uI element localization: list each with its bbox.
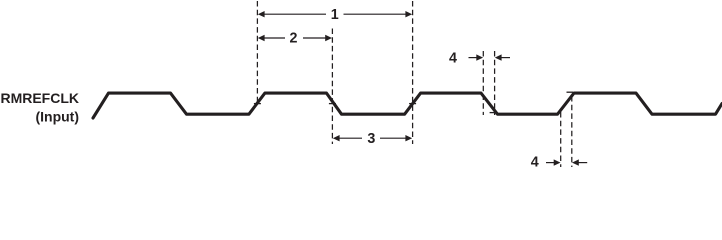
reference line G (end of rising edge 4, rise-time right) <box>571 96 573 167</box>
reference line A (rising edge 2, left of dims 1 and 2) <box>256 1 258 105</box>
svg-text:1: 1 <box>331 7 339 23</box>
reference line E (end of falling edge 3, fall-time right) <box>494 51 496 115</box>
waveform RMREFCLK clock trace <box>93 93 722 118</box>
tick at high level near rising edge 4 end <box>567 91 574 93</box>
svg-text:4: 4 <box>531 154 539 170</box>
reference line C (rising edge 3, right of dims 1 and 3) <box>412 1 414 144</box>
dimension 3 (low pulse width) arrow line <box>333 135 412 141</box>
svg-text:(Input): (Input) <box>35 109 79 125</box>
tick at 50% crossing of rising edge 2 <box>254 103 261 105</box>
dimension 2 (high pulse width) arrow line <box>258 35 332 41</box>
reference line D (start of falling edge 3, fall-time left) <box>482 51 484 115</box>
tick at low level near falling edge 3 end <box>490 112 497 114</box>
tick at 50% crossing of rising edge 3 <box>409 103 416 105</box>
dimension 4 bottom (rise time) arrows pointing inward <box>546 159 587 165</box>
svg-text:RMREFCLK: RMREFCLK <box>0 90 79 106</box>
dimension 4 top (fall time) arrows pointing inward <box>469 54 511 60</box>
svg-text:4: 4 <box>449 50 457 66</box>
dimension 1 (clock period) arrow line <box>258 11 412 17</box>
svg-text:3: 3 <box>367 131 375 147</box>
tick at 50% crossing of falling edge 2 <box>329 103 336 105</box>
svg-text:2: 2 <box>290 31 298 47</box>
reference line B (falling edge 2, right of dim 2, left of dim 3) <box>331 29 333 145</box>
reference line F (start of rising edge 4, rise-time left) <box>560 112 562 167</box>
